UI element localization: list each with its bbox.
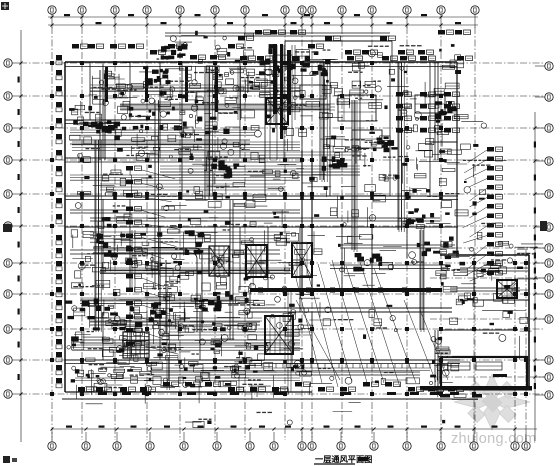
right dimension line — [534, 112, 537, 441]
bottom dimension line — [51, 426, 538, 431]
vertical axis lines — [52, 27, 526, 441]
AHU units — [300, 85, 445, 148]
solid shaft walls x302/312 — [301, 150, 303, 290]
left tag column — [126, 166, 179, 354]
interior corridor walls — [65, 120, 529, 364]
stair right wing — [266, 98, 517, 298]
right tag column — [463, 147, 503, 281]
thick drops from top wall — [105, 67, 218, 112]
stair core bottom-left (waffle) — [123, 332, 149, 358]
main ducts — [70, 33, 528, 395]
watermark logo — [454, 374, 530, 430]
equipment tags above top wall — [72, 30, 473, 61]
bottom-left corner glyph — [3, 456, 17, 463]
title text — [314, 454, 372, 464]
interior vertical walls — [90, 62, 430, 360]
left axis bubbles — [4, 59, 21, 398]
rounded duct loop bottom-left — [93, 70, 202, 334]
wing interior equipment — [440, 362, 507, 400]
left dimension line — [18, 30, 23, 442]
tag grid upper right — [396, 92, 460, 133]
comb ticks on south wall — [255, 288, 451, 369]
riser shafts top-center — [270, 44, 295, 160]
structural columns — [50, 61, 528, 396]
top-left corner glyph — [1, 2, 9, 10]
top dimension lines — [48, 14, 478, 27]
stair core center — [209, 243, 312, 354]
left edge mark — [3, 224, 12, 232]
corridor ticks — [80, 196, 443, 364]
top axis bubbles — [48, 6, 479, 28]
detail texture — [67, 31, 543, 428]
bottom equipment tag row — [78, 382, 464, 395]
dark clusters — [91, 44, 459, 327]
leader fan bottom-center — [292, 258, 448, 387]
dark blob row y120 — [65, 116, 230, 341]
horizontal axis lines — [20, 63, 544, 394]
building outer walls — [62, 41, 532, 399]
right axis bubbles — [535, 62, 553, 399]
right edge mark — [540, 221, 547, 231]
pipe bundles — [70, 62, 430, 392]
left edge tag stacks — [56, 55, 62, 388]
bottom axis bubbles — [48, 432, 530, 450]
